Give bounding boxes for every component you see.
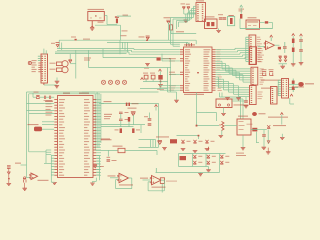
polarity mark — [28, 61, 31, 64]
wire — [208, 167, 210, 170]
relay K2 — [180, 156, 187, 160]
diode D7 — [131, 112, 136, 116]
capacitor C8 — [119, 112, 123, 113]
ground — [266, 152, 271, 154]
wire — [21, 164, 27, 166]
pins U1 top — [185, 43, 188, 46]
wire — [208, 147, 210, 151]
wire — [43, 83, 45, 85]
net label — [261, 80, 282, 81]
pin stubs J1 — [38, 55, 41, 57]
relay K1 — [170, 139, 177, 143]
wire bus U1 to headers — [216, 49, 236, 51]
wire — [289, 83, 298, 85]
ground — [184, 20, 189, 22]
wire — [42, 128, 54, 130]
wire — [232, 100, 245, 102]
wire — [69, 54, 71, 60]
net label — [34, 92, 39, 93]
ground — [7, 183, 12, 185]
USB connector J3 — [246, 20, 260, 29]
net label — [15, 163, 21, 164]
wire bus down-left — [94, 94, 96, 151]
net label — [104, 114, 112, 115]
op-amp U8A — [152, 176, 162, 185]
wire — [168, 23, 170, 41]
ground — [90, 183, 95, 185]
resistor R8 — [158, 141, 163, 145]
vcc arrow — [270, 35, 273, 37]
capacitor C6 — [62, 61, 68, 67]
wire U5 left stubs bottom — [51, 154, 54, 156]
wire — [279, 63, 288, 65]
net label — [236, 153, 244, 154]
wire — [125, 149, 157, 151]
wire bus group B — [216, 60, 223, 62]
jumper SJ2 — [57, 68, 63, 72]
connector CN2 — [196, 3, 206, 22]
mark — [252, 112, 257, 116]
diode D2 — [69, 59, 72, 62]
capacitor C21 — [148, 119, 152, 120]
wire — [143, 179, 151, 181]
pin labels JP3 — [258, 92, 263, 93]
ground — [198, 174, 203, 176]
diode D6 — [93, 164, 97, 167]
wire — [278, 79, 281, 81]
capacitor C16 — [107, 160, 111, 161]
vcc arrow — [290, 94, 293, 96]
diode D3 — [166, 20, 171, 23]
ground — [225, 98, 230, 100]
wire — [96, 149, 118, 151]
transistor Q6 — [193, 155, 196, 158]
vcc arrow — [159, 69, 162, 71]
ground — [216, 30, 221, 32]
resistor R3 — [144, 75, 148, 79]
resistor R22 — [292, 48, 295, 53]
wire — [196, 93, 198, 127]
wire VIN bus — [59, 39, 196, 41]
net label — [83, 39, 90, 40]
ground — [241, 148, 246, 150]
connector J1 — [41, 54, 48, 83]
wire — [240, 28, 273, 30]
pins U1 right — [212, 48, 215, 51]
fuse F1 — [116, 19, 118, 24]
wire — [45, 102, 54, 104]
switch S2 — [34, 127, 42, 132]
wire — [33, 96, 36, 98]
wire — [82, 91, 95, 93]
IC U1 interface — [184, 47, 213, 93]
wire bus to U1 — [134, 49, 180, 51]
transistor Q9 — [193, 161, 196, 164]
header JP1 — [250, 47, 257, 65]
wire — [240, 8, 242, 14]
ground — [206, 170, 211, 172]
transistor Q10 — [207, 161, 210, 164]
wire — [42, 121, 54, 123]
reset button S1 — [298, 82, 304, 87]
resistor R6 — [120, 128, 122, 133]
wire CN2 fanout — [194, 5, 197, 7]
vcc arrow — [155, 105, 158, 107]
value label — [38, 180, 49, 181]
ground — [280, 137, 285, 139]
net label — [101, 139, 112, 140]
wire — [258, 46, 265, 48]
wire — [117, 15, 131, 17]
ground — [280, 66, 285, 68]
diode D8 — [252, 128, 257, 132]
capacitor C17 — [45, 96, 46, 99]
meter M1 — [216, 99, 232, 108]
wire — [102, 49, 104, 58]
transistor Q8 — [220, 155, 223, 158]
wire bus J1 top — [57, 48, 134, 50]
ground — [158, 85, 163, 87]
net label — [261, 88, 272, 89]
resonator Y4 — [126, 103, 128, 106]
wire — [88, 50, 90, 67]
wire — [256, 132, 258, 143]
net label — [121, 35, 127, 36]
capacitor C23 — [158, 75, 162, 80]
capacitor C15 — [7, 167, 11, 168]
wire into U1 top pins — [186, 42, 188, 44]
vcc arrow — [141, 78, 144, 80]
resistor R7 — [132, 128, 134, 133]
pin labels JP1 — [258, 48, 262, 49]
op-amp U7B — [119, 173, 129, 182]
led LED1 — [279, 56, 282, 62]
ground — [262, 147, 267, 149]
inductor L1 — [240, 14, 242, 19]
potentiometer RV1 — [222, 122, 225, 131]
wire — [267, 130, 269, 145]
crystal Y1 — [228, 17, 235, 26]
wire bus group C — [216, 76, 219, 78]
ground — [244, 106, 249, 108]
wire — [104, 15, 107, 17]
wire — [289, 87, 298, 89]
resistor R21 — [292, 39, 295, 44]
transistor Q1 — [262, 72, 266, 76]
wire U5 right stubs bottom — [96, 154, 99, 156]
value label — [152, 187, 166, 188]
capacitor C14 — [299, 50, 303, 51]
ground — [55, 86, 60, 88]
power connector X1 — [88, 12, 105, 21]
ground — [90, 28, 95, 30]
diode D5 — [187, 6, 190, 9]
connector CN3 — [249, 35, 256, 65]
wire VCC bus 2 — [107, 41, 188, 43]
ground — [52, 182, 57, 184]
jumper SJ1 — [57, 62, 63, 66]
vcc arrow — [300, 34, 303, 36]
capacitor C7 — [62, 67, 68, 73]
diode D1 — [56, 43, 60, 47]
ground — [205, 148, 210, 150]
value label — [119, 184, 133, 185]
ground — [299, 63, 304, 65]
op-amp U4A — [266, 41, 275, 50]
resistor R2 — [170, 25, 173, 30]
pin labels U1 left — [185, 49, 190, 50]
wire — [161, 58, 171, 60]
header JP2 — [251, 67, 258, 85]
capacitor C13 — [299, 40, 303, 41]
fuse F2 — [157, 57, 161, 60]
wire output net — [251, 129, 267, 131]
resistor R10 — [118, 148, 125, 152]
transistor Q12 — [267, 125, 270, 128]
wire — [171, 73, 180, 75]
IC U6 op-amp — [237, 119, 251, 135]
wire — [143, 81, 168, 83]
relay K3 — [160, 178, 164, 184]
transistor Q3 — [181, 140, 184, 143]
diode D10 on bus — [146, 36, 150, 39]
wire — [246, 36, 249, 38]
wire feedback — [161, 179, 164, 181]
wire grid — [179, 153, 226, 155]
vcc arrow — [280, 113, 283, 115]
ground — [219, 135, 224, 137]
pin labels U5 right — [84, 99, 89, 100]
capacitor C3 — [223, 18, 227, 19]
net label — [140, 178, 148, 179]
net label — [234, 104, 249, 105]
capacitor C12 — [283, 47, 287, 48]
vcc arrow — [240, 5, 243, 7]
ground — [193, 150, 198, 152]
wire — [43, 49, 45, 54]
ground — [145, 64, 150, 66]
ground — [291, 64, 296, 66]
mounting holes — [101, 80, 105, 84]
pins U5 right — [93, 98, 96, 101]
wire — [177, 135, 199, 137]
ground — [236, 98, 241, 100]
capacitor C19 — [262, 135, 266, 136]
long wire AGND — [156, 172, 220, 174]
crystal Y3 above U5 — [36, 95, 39, 98]
wire bus U1 bottom-left — [160, 85, 180, 87]
wire — [155, 168, 157, 173]
led LED2 — [284, 56, 287, 62]
transistor Q7 — [207, 155, 210, 158]
net label — [156, 136, 169, 137]
wire — [159, 71, 161, 75]
ground — [162, 148, 167, 150]
wire — [91, 21, 93, 28]
pin labels U5 left — [59, 99, 65, 100]
ferrite L2 — [265, 21, 268, 23]
diode D9 — [7, 172, 10, 174]
ground — [174, 100, 179, 102]
pins U5 left — [54, 98, 57, 101]
wire RESET net — [101, 102, 159, 104]
junction — [75, 39, 77, 41]
capacitor C22 — [148, 124, 152, 125]
wire feedback — [129, 177, 132, 179]
ground — [22, 188, 27, 190]
crystal Y2 — [292, 79, 294, 93]
ground — [221, 113, 226, 115]
wire — [158, 103, 160, 147]
net label — [295, 86, 304, 87]
transistor Q13 — [23, 179, 26, 183]
net labels U1 left — [169, 58, 176, 59]
op-amp U7A — [31, 173, 38, 180]
wire — [140, 87, 168, 89]
ground — [55, 81, 60, 83]
vcc arrow — [292, 34, 295, 36]
transistor Q4 — [193, 140, 196, 143]
transistor Q5 — [205, 140, 208, 143]
net label — [123, 15, 129, 16]
net label — [101, 138, 110, 139]
net labels U5 left — [46, 101, 53, 102]
wire — [101, 124, 145, 126]
pin labels U1 right — [204, 49, 211, 50]
capacitor C2 — [219, 18, 223, 19]
capacitor C9 — [119, 119, 123, 120]
transistor Q11 — [220, 161, 223, 164]
header JP3 — [250, 86, 257, 105]
header JP4 — [271, 87, 278, 105]
diode D4 — [182, 6, 185, 9]
wire — [110, 177, 118, 179]
wire U1 bottom — [219, 93, 221, 98]
resistor R20 — [278, 47, 281, 50]
ground — [181, 148, 186, 150]
wire fan verticals — [119, 40, 121, 54]
wire — [27, 110, 55, 112]
IC U2 regulator — [205, 19, 218, 29]
net label — [108, 175, 116, 176]
wire — [197, 112, 217, 114]
wire — [183, 10, 185, 15]
wire — [260, 22, 265, 24]
resistor R5 — [128, 117, 130, 122]
IC U5 microcontroller — [58, 96, 94, 178]
net labels on bus — [217, 49, 221, 50]
wire loop around U5 — [27, 91, 159, 93]
capacitor C18 — [50, 96, 51, 99]
mark — [267, 141, 270, 143]
pin labels J1 — [32, 60, 37, 61]
resistor R4 — [151, 75, 155, 79]
pins U1 left — [180, 48, 183, 51]
pin labels CN3 — [257, 37, 260, 38]
header ICSP JP5 — [282, 79, 289, 99]
net label PWR — [98, 22, 104, 23]
net label — [268, 117, 288, 118]
mark — [197, 72, 199, 73]
transistor Q2 — [269, 72, 273, 76]
wire — [58, 40, 60, 48]
mark — [8, 178, 10, 180]
capacitor C10 — [244, 101, 248, 102]
pin labels JP2 — [260, 68, 264, 69]
wire U5 right stubs top — [96, 99, 101, 101]
wire — [120, 25, 122, 40]
